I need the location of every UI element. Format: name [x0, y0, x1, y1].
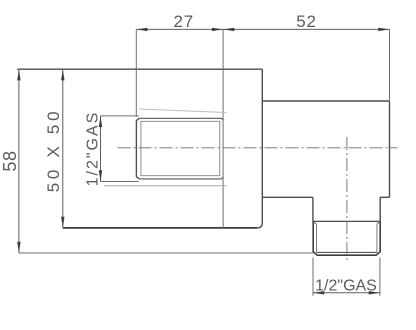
body right edge — [389, 101, 391, 197]
dimension 50x50 line — [62, 69, 64, 228]
svg-text:1/2"GAS: 1/2"GAS — [84, 111, 101, 187]
centerline horizontal through left nipple and body — [118, 147, 398, 149]
dimension 52 line — [223, 28, 389, 30]
bottom nipple thread start line — [313, 220, 380, 222]
body top edge — [262, 100, 389, 102]
wall plate top edge (also extension line for 58 and 50x50 dims) — [17, 68, 262, 70]
dimension 27 left extension / nipple tip line — [135, 29, 137, 116]
wall plate bottom edge — [63, 227, 257, 229]
svg-text:1/2"GAS: 1/2"GAS — [315, 278, 377, 295]
centerline vertical through bottom nipple — [346, 137, 348, 262]
bottom nipple crest outline with bottom chamfers — [313, 221, 380, 255]
svg-text:50 X 50: 50 X 50 — [44, 108, 63, 193]
svg-text:58: 58 — [0, 150, 20, 171]
dimension 1/2 GAS left: top extension — [101, 115, 139, 117]
svg-text:27: 27 — [173, 12, 194, 31]
dimension 1/2 GAS left: bottom extension — [101, 181, 139, 183]
bottom nipple neck right edge — [379, 197, 381, 221]
dimension 58 arrows — [17, 69, 20, 80]
bottom nipple thread start chamfer diagonals — [313, 221, 380, 224]
dimension 1/2 GAS bottom: dim line — [313, 292, 380, 294]
left nipple faint upper line — [139, 109, 227, 113]
bottom nipple neck left edge — [312, 197, 314, 221]
dimension 1/2 GAS bottom: left extension — [312, 258, 314, 296]
svg-text:52: 52 — [296, 12, 317, 31]
dimension 52 arrows — [223, 28, 234, 31]
dimension 1/2 GAS bottom arrows — [313, 291, 324, 294]
left nipple thread root rectangle — [141, 121, 220, 175]
left nipple tip edge with chamfers — [136, 118, 139, 179]
dimension 1/2 GAS left: dim line — [100, 116, 102, 182]
dimension 58 bottom extension line — [19, 252, 313, 254]
left nipple faint lower line — [104, 185, 227, 187]
body bottom edge left segment — [262, 196, 313, 198]
wall plate right edge — [257, 69, 262, 228]
dimension 1/2 GAS bottom: right extension — [379, 258, 381, 296]
body bottom edge right segment — [380, 196, 389, 198]
dimension 27 arrows — [136, 28, 147, 31]
dimension 58 line — [18, 69, 20, 253]
left nipple outer (crest) outline with chamfered corners — [140, 118, 224, 179]
bottom nipple thread root lines — [317, 224, 377, 252]
bottom nipple thread root bottom line — [317, 251, 377, 253]
dimension 27 line — [136, 28, 223, 30]
dimension 50x50 arrows — [61, 69, 64, 80]
dimension 1/2 GAS left arrows — [99, 116, 102, 127]
node: plate face line (nipple base, extension of 27/52 dims) — [222, 29, 224, 228]
dimension 52 right extension — [389, 29, 391, 100]
